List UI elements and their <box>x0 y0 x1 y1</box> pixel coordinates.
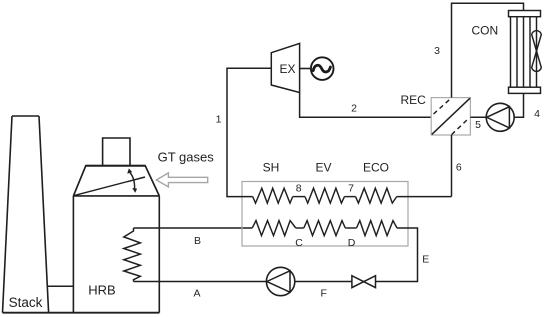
condenser CON bottom header <box>509 87 541 93</box>
condenser fan bottom blade <box>532 51 542 71</box>
condenser tubes <box>511 17 537 88</box>
bottom row wire D gap <box>345 227 356 229</box>
GT gases hollow arrow <box>156 173 207 187</box>
damper rotation arc <box>130 172 135 189</box>
svg-text:D: D <box>348 237 356 249</box>
valve <box>352 276 376 288</box>
top row wire 8 gap <box>293 196 305 198</box>
wire 3 (REC to condenser) <box>452 3 524 97</box>
svg-text:REC: REC <box>401 93 427 107</box>
generator G <box>311 57 334 80</box>
top row right flat wire <box>397 196 452 198</box>
svg-text:8: 8 <box>296 182 302 194</box>
stack chimney <box>3 116 49 313</box>
svg-text:2: 2 <box>351 102 357 114</box>
HRB roof <box>73 166 159 196</box>
pump P1 (water pump) <box>266 267 294 295</box>
svg-text:GT gases: GT gases <box>158 150 215 165</box>
svg-text:CON: CON <box>471 23 498 37</box>
svg-text:1: 1 <box>216 114 222 126</box>
bottom row: coil C3 <box>357 221 398 236</box>
svg-text:6: 6 <box>456 162 462 174</box>
pump P1 rotor triangle <box>267 271 290 292</box>
svg-text:C: C <box>295 237 303 249</box>
damper line in roof <box>75 177 146 195</box>
wire 5 (pump to REC) <box>470 116 486 118</box>
wire A (coil to pump) <box>134 281 267 283</box>
svg-text:EX: EX <box>279 62 295 76</box>
generator sine symbol <box>313 65 330 72</box>
svg-text:F: F <box>320 288 326 300</box>
generator shaft wire <box>300 68 311 70</box>
REC dashed diagonal upper <box>434 98 452 114</box>
pump P2 rotor triangle <box>487 107 510 128</box>
top row: ECO coil <box>356 188 397 203</box>
REC main diagonal <box>432 98 470 134</box>
svg-text:ECO: ECO <box>363 161 389 175</box>
svg-text:EV: EV <box>315 161 331 175</box>
wire B (coil to economiser row) <box>134 227 253 229</box>
top row: EV coil <box>305 188 345 203</box>
condenser CON top header <box>509 11 541 17</box>
wire E (row to valve) <box>376 228 418 282</box>
wire 4 (condenser to fan pump) <box>514 93 523 117</box>
bottom row: coil C1 <box>252 221 296 236</box>
svg-text:5: 5 <box>475 119 481 131</box>
svg-text:A: A <box>193 288 200 300</box>
svg-text:SH: SH <box>263 161 280 175</box>
svg-text:B: B <box>194 235 201 247</box>
HRB roof chimney <box>103 138 130 166</box>
recuperator REC box <box>431 98 470 135</box>
wire F (pump to valve) <box>295 281 352 283</box>
condenser fan top blade <box>532 31 542 51</box>
bottom row: coil C2 <box>304 221 346 236</box>
svg-text:Stack: Stack <box>9 295 43 310</box>
svg-text:3: 3 <box>434 45 440 57</box>
top row wire 7 gap <box>345 196 356 198</box>
svg-text:4: 4 <box>534 108 540 120</box>
HRB boiler body <box>73 196 159 313</box>
top row: SH coil <box>253 188 293 203</box>
ground line <box>3 312 160 314</box>
svg-text:7: 7 <box>348 182 354 194</box>
wire 6 (REC to ECO row) <box>451 135 453 197</box>
wire 1 (SH to turbine) <box>227 68 271 196</box>
REC dashed diagonal lower <box>452 118 469 134</box>
bottom row wire C gap <box>296 227 304 229</box>
wire 2 (turbine to REC) <box>300 93 432 118</box>
damper arrowhead top <box>127 168 132 173</box>
svg-text:E: E <box>422 254 429 266</box>
HRB internal coil <box>124 228 141 282</box>
flue duct top (stack to HRB) <box>47 285 73 287</box>
svg-text:HRB: HRB <box>88 282 115 297</box>
damper arrowhead bottom <box>132 188 137 193</box>
turbine EX <box>271 43 299 92</box>
pump P2 (condensate pump) <box>486 103 514 131</box>
economiser bank frame (grey box) <box>242 182 408 247</box>
